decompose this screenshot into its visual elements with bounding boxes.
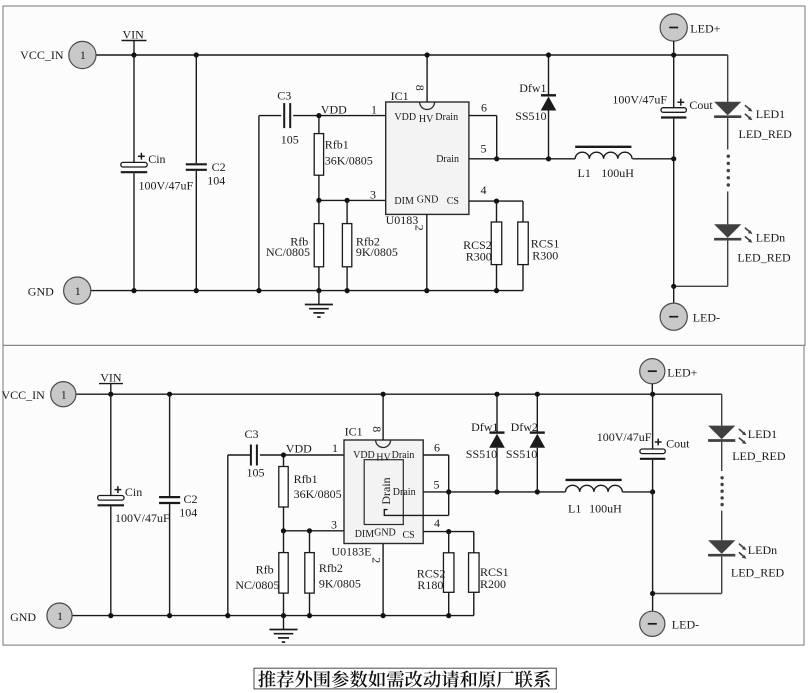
resistor Rfb NC/0805: [266, 200, 324, 290]
svg-text:VCC_IN: VCC_IN: [1, 388, 45, 402]
frame top circuit: [3, 6, 805, 345]
svg-text:GND: GND: [28, 284, 54, 298]
svg-text:4: 4: [481, 183, 487, 197]
node ground rail junction circuit 2: [108, 613, 113, 618]
svg-text:L1: L1: [568, 502, 581, 516]
LED LEDn LED_RED circuit 2: [708, 540, 784, 579]
wire Cin bottom: [133, 173, 135, 290]
resistor Rfb NC/0805 circuit 2: [235, 531, 288, 616]
resistor RCS1 R200 circuit 2: [469, 553, 509, 616]
svg-text:LEDn: LEDn: [756, 230, 785, 244]
resistor RCS2 body circuit 2: [443, 553, 454, 593]
op-amp U1 IC1 U0183E body circuit 2: [332, 425, 424, 559]
svg-text:HV: HV: [376, 452, 391, 463]
svg-text:U0183E: U0183E: [332, 545, 372, 559]
svg-text:5: 5: [434, 477, 440, 491]
svg-text:Cout: Cout: [666, 437, 690, 451]
wire VDD net C3 to IC1 pin 1: [293, 115, 386, 117]
svg-text:105: 105: [281, 132, 299, 146]
pin 8 wire to rail circuit 2: [382, 394, 384, 440]
diode Dfw1 SS510 circuit 2: [496, 394, 498, 432]
wire Cout bottom to LED- node: [673, 119, 675, 287]
node pin8 on rail: [425, 52, 430, 57]
node C2 top junction: [194, 52, 199, 57]
node ground rail junction circuit 2: [225, 613, 230, 618]
svg-text:100uH: 100uH: [589, 502, 622, 516]
resistor Rfb2 body: [342, 224, 351, 267]
svg-text:VDD: VDD: [394, 112, 416, 123]
wire Dfw2 anode down circuit 2: [536, 448, 538, 492]
wire LED string top branch: [727, 55, 729, 102]
wire Drain pin 5 net circuit 2: [423, 491, 565, 493]
svg-text:R180: R180: [417, 578, 443, 592]
node VIN junction: [131, 52, 136, 57]
svg-text:3: 3: [331, 518, 337, 532]
wire CS pin 4 net: [469, 201, 523, 222]
wire VDD net circuit 2: [260, 454, 344, 456]
svg-text:9K/0805: 9K/0805: [356, 245, 398, 259]
terminal LED+ circuit 2: [640, 359, 698, 384]
svg-text:DIM: DIM: [355, 529, 375, 540]
wire C2 top circuit 2: [169, 394, 171, 496]
capacitor C2 104: [186, 164, 207, 170]
diode Dfw1 SS510: [548, 55, 550, 95]
svg-text:4: 4: [434, 516, 440, 530]
LED LED1 LED_RED: [714, 102, 792, 141]
svg-text:LED1: LED1: [748, 427, 777, 441]
resistor Rfb1 36K/0805 circuit 2: [279, 455, 342, 531]
pin 2 GND wire to ground rail: [426, 214, 428, 290]
diode Dfw1 body circuit 2: [466, 420, 505, 461]
wire below LEDn to LED- node: [674, 241, 728, 287]
diode Dfw2 SS510 circuit 2: [536, 394, 538, 432]
svg-text:CS: CS: [403, 530, 415, 541]
terminal LED-: [660, 303, 720, 330]
node ground rail junction: [424, 288, 429, 293]
wire Dfw1 anode down circuit 2: [496, 448, 498, 492]
wire LED+ to rail circuit 2: [651, 384, 653, 394]
svg-text:NC/0805: NC/0805: [266, 245, 310, 259]
svg-text:Cout: Cout: [689, 98, 713, 112]
svg-text:GND: GND: [417, 195, 439, 206]
node Dfw1 anode circuit 2: [494, 489, 499, 494]
svg-text:Dfw1: Dfw1: [519, 81, 546, 95]
svg-text:Rfb1: Rfb1: [294, 472, 318, 486]
wire below LED1: [727, 118, 729, 150]
svg-text:LED_RED: LED_RED: [731, 565, 785, 579]
resistor Rfb2 body circuit 2: [305, 553, 314, 594]
wire above LEDn: [727, 192, 729, 225]
svg-text:HV: HV: [419, 114, 434, 125]
node Dfw1 cathode on rail circuit 2: [494, 392, 499, 397]
svg-text:GND: GND: [374, 527, 396, 538]
wire C2 top: [195, 55, 197, 163]
node L1 output circuit 2: [650, 489, 655, 494]
svg-text:IC1: IC1: [391, 89, 409, 103]
svg-text:6: 6: [481, 100, 487, 114]
node dotted ellipsis between LEDs: [727, 155, 730, 187]
node ground rail junction: [131, 288, 136, 293]
node ground rail junction: [345, 288, 350, 293]
svg-text:SS510: SS510: [466, 447, 497, 461]
svg-text:R300: R300: [466, 249, 492, 263]
op-amp U1 IC1 U0183 body: [386, 89, 469, 227]
node Dfw2 cathode on rail circuit 2: [535, 392, 540, 397]
resistor Rfb1 36K/0805: [314, 116, 373, 201]
node ground rail junction circuit 2: [446, 613, 451, 618]
resistor RCS2 body: [491, 222, 502, 265]
wire C3 left branch circuit 2: [228, 455, 251, 616]
LED LED1 LED_RED circuit 2: [708, 426, 786, 463]
svg-text:LED_RED: LED_RED: [737, 251, 791, 265]
node ground rail junction circuit 2: [381, 613, 386, 618]
LED LEDn LED_RED: [714, 224, 791, 264]
node C2 top junction circuit 2: [167, 392, 172, 397]
node ground rail junction: [256, 288, 261, 293]
wire to LED- terminal: [673, 286, 675, 303]
inductor L1 100uH circuit 2: [566, 480, 623, 516]
capacitor Cout 100V/47uF: [661, 99, 686, 118]
resistor Rfb1 body: [314, 134, 323, 176]
svg-text:5: 5: [481, 142, 487, 156]
resistor RCS1 R300: [518, 222, 560, 291]
svg-text:VDD: VDD: [353, 450, 375, 461]
node ground rail junction: [494, 288, 499, 293]
capacitor C2 104 circuit 2: [159, 497, 180, 503]
node L1 output: [671, 156, 676, 161]
wire to LED- terminal circuit 2: [652, 594, 654, 612]
svg-text:100V/47uF: 100V/47uF: [597, 430, 652, 444]
svg-text:104: 104: [207, 174, 225, 188]
terminal GND circuit 2: [10, 603, 72, 628]
svg-text:Drain: Drain: [436, 154, 459, 165]
svg-text:VDD: VDD: [321, 102, 347, 116]
ground symbol circuit 2: [269, 616, 297, 643]
svg-text:8: 8: [370, 426, 384, 432]
wire LED string top branch circuit 2: [721, 394, 723, 425]
diode Dfw1 body: [515, 81, 556, 123]
caption box: [254, 668, 556, 689]
wire C3 left branch to ground rail: [259, 116, 281, 291]
node ground rail junction circuit 2: [307, 613, 312, 618]
svg-text:36K/0805: 36K/0805: [325, 153, 373, 167]
resistor Rfb2 9K/0805 circuit 2: [305, 531, 361, 616]
svg-text:6: 6: [434, 440, 440, 454]
node DIM circuit 2: [281, 528, 286, 533]
svg-text:105: 105: [247, 466, 265, 480]
inductor L1 100uH: [575, 147, 634, 180]
node LED+ junction circuit 2: [650, 392, 655, 397]
resistor RCS2 R300: [463, 201, 502, 291]
svg-text:R300: R300: [532, 248, 558, 262]
svg-text:1: 1: [75, 284, 81, 298]
node Dfw2 anode circuit 2: [535, 489, 540, 494]
node Dfw1 anode: [546, 156, 551, 161]
resistor RCS2 R180 circuit 2: [417, 532, 454, 616]
wire Dfw1 anode down: [548, 111, 550, 159]
svg-text:VDD: VDD: [286, 442, 312, 456]
svg-text:LED+: LED+: [690, 22, 720, 36]
resistor RCS1 body circuit 2: [469, 553, 480, 593]
terminal VCC_IN: [20, 41, 96, 68]
svg-text:Rfb: Rfb: [256, 563, 274, 577]
svg-text:100V/47uF: 100V/47uF: [115, 511, 170, 525]
wire LED+ to rail: [673, 41, 675, 55]
wire Cin bottom circuit 2: [110, 506, 112, 615]
svg-text:LED+: LED+: [667, 365, 697, 379]
node VIN (top rail, circuit 2): [76, 393, 722, 395]
node VIN junction circuit 2: [108, 392, 113, 397]
svg-text:Drain: Drain: [435, 112, 458, 123]
node LED+ junction on rail: [671, 52, 676, 57]
node ground rail junction: [194, 288, 199, 293]
terminal VCC_IN circuit 2: [1, 382, 75, 407]
pin 2 GND wire circuit 2: [382, 544, 384, 616]
capacitor Cout 100V/47uF circuit 2: [640, 439, 665, 459]
resistor RCS1 body: [518, 222, 529, 265]
wire internal drain tab to pin6 net: [384, 510, 448, 516]
wire Cin top circuit 2: [110, 394, 112, 495]
node Dfw1 cathode on rail: [546, 52, 551, 57]
svg-text:Drain: Drain: [392, 450, 415, 461]
svg-text:Dfw2: Dfw2: [511, 420, 538, 434]
svg-text:LED-: LED-: [672, 618, 699, 632]
svg-text:100uH: 100uH: [601, 166, 634, 180]
wire Cout bottom circuit 2: [652, 460, 654, 594]
svg-text:CS: CS: [447, 196, 459, 207]
svg-text:LED_RED: LED_RED: [732, 449, 786, 463]
wire Cout top circuit 2: [652, 394, 654, 449]
node ground rail junction circuit 2: [281, 613, 286, 618]
node Rfb2 top: [345, 198, 350, 203]
node Rfb2 top circuit 2: [307, 528, 312, 533]
svg-text:100V/47uF: 100V/47uF: [612, 92, 667, 106]
terminal GND: [28, 277, 91, 304]
wire VIN label stub circuit 2: [99, 370, 123, 394]
resistor Rfb body: [314, 224, 323, 267]
wire C2 bottom: [195, 171, 197, 291]
svg-text:GND: GND: [10, 610, 36, 624]
svg-text:3: 3: [370, 188, 376, 202]
svg-text:Drain: Drain: [393, 487, 416, 498]
wire Drain pin 5 net: [469, 158, 575, 160]
svg-text:1: 1: [332, 441, 338, 455]
svg-text:104: 104: [179, 506, 197, 520]
node VIN (top rail, circuit 1): [97, 54, 728, 56]
wire below LED1 circuit 2: [721, 442, 723, 471]
svg-text:VIN: VIN: [123, 27, 145, 41]
frame bottom circuit: [3, 345, 804, 645]
svg-text:100V/47uF: 100V/47uF: [139, 179, 194, 193]
svg-text:Cin: Cin: [125, 485, 142, 499]
wire above LEDn circuit 2: [721, 511, 723, 541]
node pin6-drain junction: [494, 156, 499, 161]
resistor Rfb2 9K/0805: [342, 200, 398, 290]
wire L1 right to output node: [632, 158, 673, 160]
capacitor Cin 100V/47uF circuit 2: [98, 486, 124, 505]
svg-text:LED1: LED1: [756, 107, 785, 121]
svg-text:C2: C2: [184, 492, 198, 506]
capacitor Cin 100V/47uF: [121, 153, 147, 172]
node RCS2 top: [494, 199, 499, 204]
wire Cin top: [133, 55, 135, 162]
svg-text:8: 8: [413, 85, 427, 91]
svg-text:1: 1: [61, 387, 67, 401]
wire below LEDn circuit 2: [653, 557, 722, 594]
svg-text:Rfb1: Rfb1: [325, 138, 349, 152]
wire DIM net to IC1 pin 3: [319, 199, 386, 201]
svg-text:9K/0805: 9K/0805: [319, 576, 361, 590]
node dotted ellipsis circuit 2: [720, 476, 723, 506]
wire ground rail circuit 2: [72, 615, 474, 617]
wire pin 6 HV Drain circuit 2: [423, 455, 449, 515]
node ground rail junction: [316, 288, 321, 293]
resistor Rfb1 body circuit 2: [279, 467, 288, 508]
terminal LED- circuit 2: [640, 611, 699, 636]
node RCS2 top circuit 2: [446, 529, 451, 534]
svg-text:LED-: LED-: [693, 310, 720, 324]
svg-text:Cin: Cin: [148, 152, 165, 166]
svg-text:1: 1: [80, 48, 86, 62]
node ground rail junction circuit 2: [167, 613, 172, 618]
node LED- junction circuit 2: [650, 591, 655, 596]
wire Cout top: [673, 55, 675, 108]
node LED- junction: [671, 284, 676, 289]
wire CS pin 4 net circuit 2: [423, 532, 474, 553]
svg-text:LEDn: LEDn: [748, 543, 777, 557]
wire ground rail circuit 1: [91, 290, 523, 292]
svg-text:NC/0805: NC/0805: [235, 578, 279, 592]
node DIM: [316, 198, 321, 203]
svg-text:LED_RED: LED_RED: [739, 127, 793, 141]
svg-text:Dfw1: Dfw1: [471, 420, 498, 434]
svg-text:C2: C2: [212, 160, 226, 174]
ground symbol circuit 1: [305, 291, 333, 318]
svg-text:1: 1: [371, 102, 377, 116]
wire VIN label stub: [122, 27, 147, 55]
pin 8 wire to rail: [426, 55, 428, 102]
svg-text:C3: C3: [245, 427, 259, 441]
wire pin 6 HV Drain: [469, 116, 497, 159]
svg-text:36K/0805: 36K/0805: [294, 487, 342, 501]
diode Dfw2 body circuit 2: [506, 420, 545, 461]
node VDD circuit 2: [281, 452, 286, 457]
svg-text:VCC_IN: VCC_IN: [20, 48, 64, 62]
svg-text:1: 1: [57, 609, 63, 623]
capacitor C3 105: [284, 103, 290, 128]
svg-text:2: 2: [370, 557, 384, 563]
svg-text:SS510: SS510: [515, 109, 546, 123]
svg-text:Drain: Drain: [379, 477, 393, 504]
node VDD: [316, 113, 321, 118]
svg-text:VIN: VIN: [100, 370, 122, 384]
svg-text:R200: R200: [480, 577, 506, 591]
svg-text:C3: C3: [277, 89, 291, 103]
svg-text:L1: L1: [578, 166, 591, 180]
capacitor C3 105 circuit 2: [251, 445, 257, 466]
svg-text:Rfb2: Rfb2: [319, 561, 343, 575]
wire L1 right circuit 2: [622, 491, 652, 493]
terminal LED+: [660, 14, 721, 41]
node pin6-drain junction circuit 2: [446, 489, 451, 494]
svg-text:SS510: SS510: [506, 447, 537, 461]
svg-text:IC1: IC1: [345, 425, 363, 439]
svg-text:2: 2: [412, 225, 426, 231]
svg-text:DIM: DIM: [394, 196, 414, 207]
wire DIM net circuit 2: [284, 530, 345, 532]
node pin8 on rail circuit 2: [381, 392, 386, 397]
caption text 推荐外围参数如需改动请和原厂联系: [258, 670, 549, 687]
resistor Rfb body circuit 2: [279, 553, 288, 594]
wire C2 bottom circuit 2: [169, 504, 171, 615]
